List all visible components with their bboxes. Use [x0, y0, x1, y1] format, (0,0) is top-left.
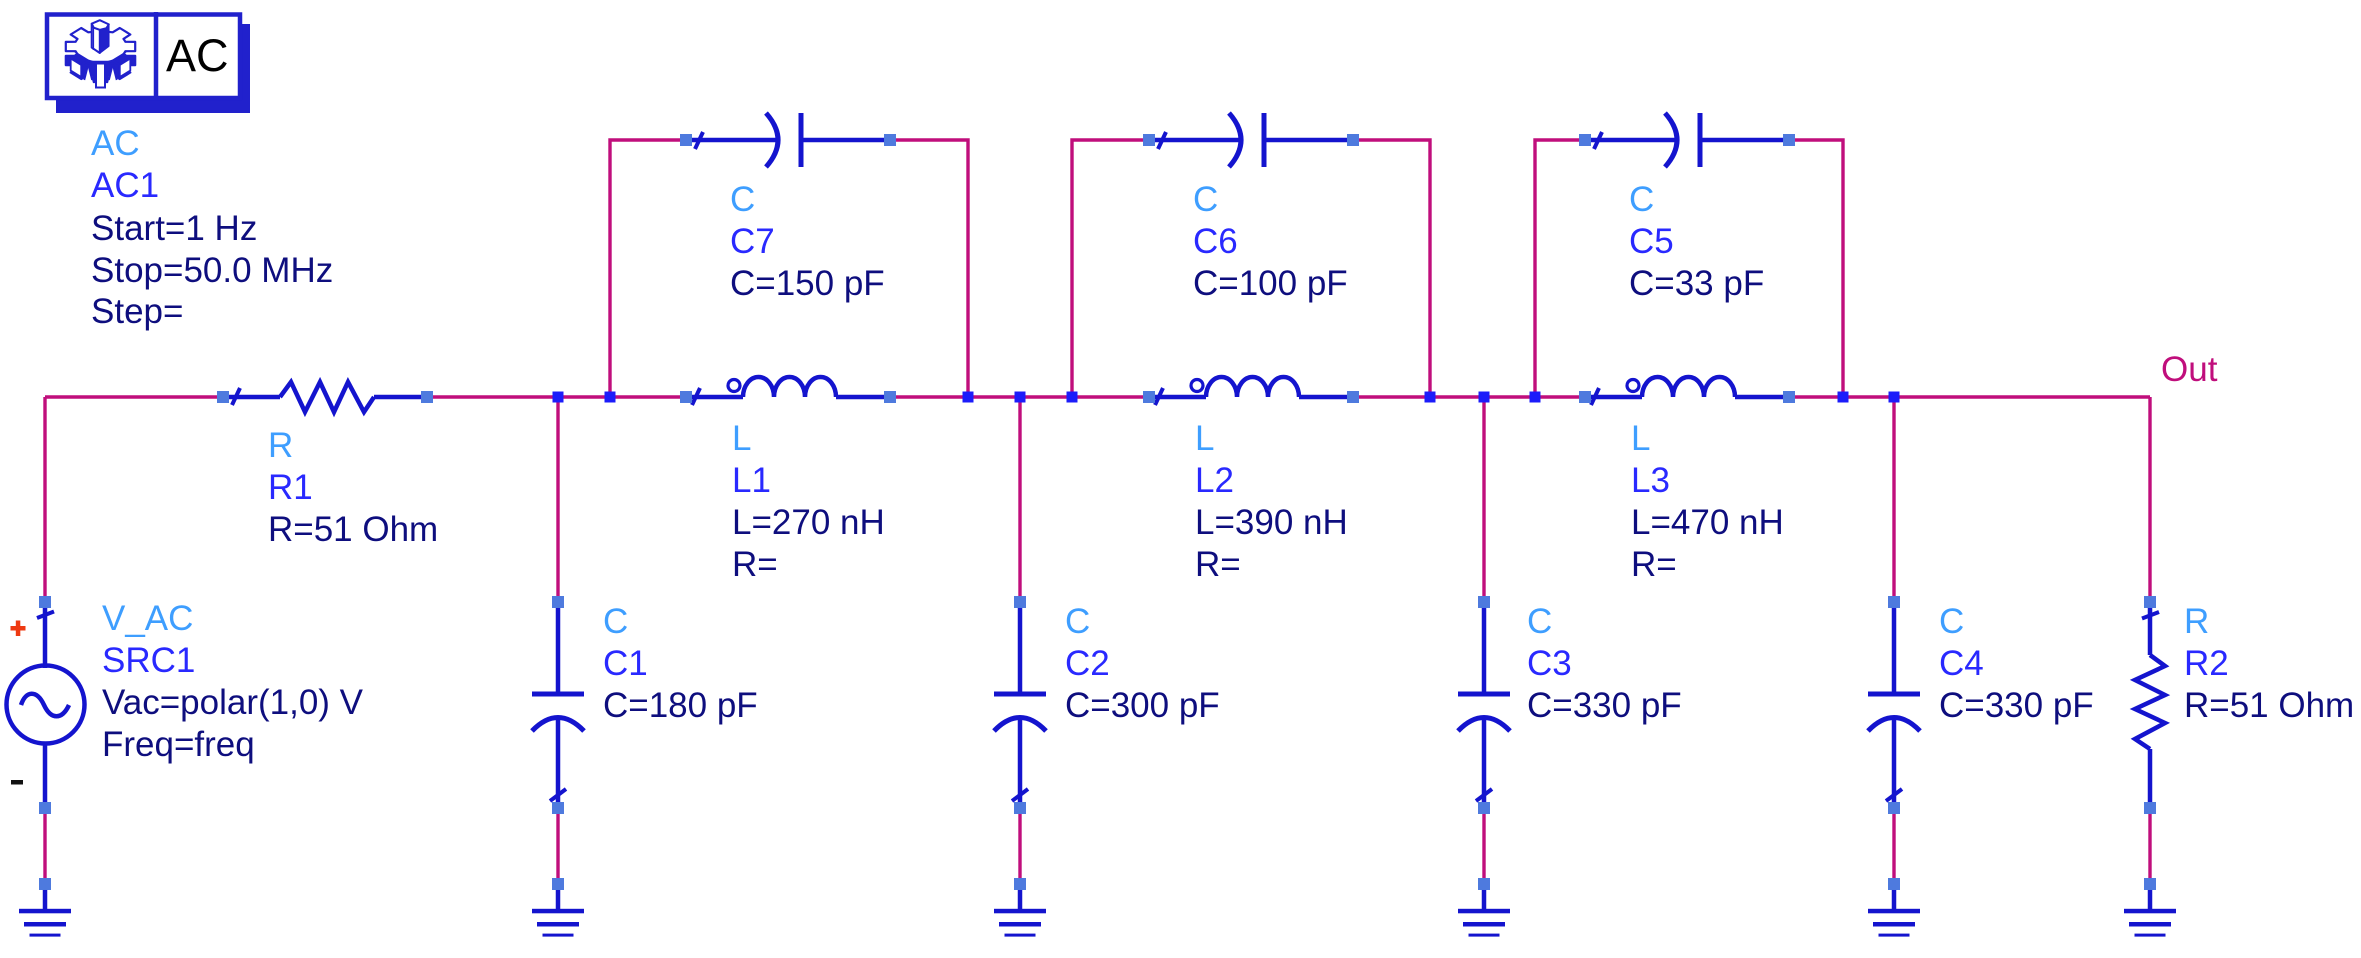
svg-text:V_AC: V_AC: [102, 599, 193, 638]
svg-text:R=51 Ohm: R=51 Ohm: [2184, 686, 2354, 725]
svg-text:C6: C6: [1193, 222, 1238, 261]
svg-text:C=330 pF: C=330 pF: [1939, 686, 2094, 725]
svg-text:L1: L1: [732, 461, 771, 500]
svg-text:R2: R2: [2184, 644, 2229, 683]
svg-text:Freq=freq: Freq=freq: [102, 725, 255, 764]
svg-text:R1: R1: [268, 468, 313, 507]
svg-text:Out: Out: [2161, 350, 2218, 389]
svg-text:C=150 pF: C=150 pF: [730, 264, 885, 303]
svg-text:R: R: [2184, 602, 2209, 641]
svg-text:C5: C5: [1629, 222, 1674, 261]
svg-text:AC1: AC1: [91, 166, 159, 205]
svg-text:L: L: [1195, 419, 1214, 458]
svg-text:C4: C4: [1939, 644, 1984, 683]
svg-text:C=300 pF: C=300 pF: [1065, 686, 1220, 725]
svg-text:L=470 nH: L=470 nH: [1631, 503, 1784, 542]
svg-text:C: C: [730, 180, 755, 219]
svg-text:C: C: [603, 602, 628, 641]
svg-text:C=330 pF: C=330 pF: [1527, 686, 1682, 725]
svg-text:Vac=polar(1,0) V: Vac=polar(1,0) V: [102, 683, 364, 722]
svg-text:C1: C1: [603, 644, 648, 683]
svg-text:L: L: [1631, 419, 1650, 458]
svg-text:C: C: [1193, 180, 1218, 219]
svg-text:R=: R=: [732, 545, 778, 584]
svg-text:C: C: [1065, 602, 1090, 641]
svg-text:L=390 nH: L=390 nH: [1195, 503, 1348, 542]
svg-text:AC: AC: [166, 30, 229, 81]
svg-text:C: C: [1939, 602, 1964, 641]
svg-text:SRC1: SRC1: [102, 641, 195, 680]
svg-text:L=270 nH: L=270 nH: [732, 503, 885, 542]
svg-text:C3: C3: [1527, 644, 1572, 683]
svg-text:C=180 pF: C=180 pF: [603, 686, 758, 725]
svg-text:R=: R=: [1195, 545, 1241, 584]
svg-text:C7: C7: [730, 222, 775, 261]
svg-text:C=33 pF: C=33 pF: [1629, 264, 1764, 303]
svg-text:C: C: [1527, 602, 1552, 641]
svg-text:Step=: Step=: [91, 292, 183, 331]
svg-text:Start=1 Hz: Start=1 Hz: [91, 209, 257, 248]
svg-text:L2: L2: [1195, 461, 1234, 500]
svg-text:C: C: [1629, 180, 1654, 219]
svg-text:R=51 Ohm: R=51 Ohm: [268, 510, 438, 549]
svg-text:Stop=50.0 MHz: Stop=50.0 MHz: [91, 251, 333, 290]
svg-text:R: R: [268, 426, 293, 465]
svg-text:L: L: [732, 419, 751, 458]
svg-text:C=100 pF: C=100 pF: [1193, 264, 1348, 303]
svg-text:C2: C2: [1065, 644, 1110, 683]
svg-text:R=: R=: [1631, 545, 1677, 584]
svg-text:AC: AC: [91, 124, 140, 163]
svg-text:L3: L3: [1631, 461, 1670, 500]
